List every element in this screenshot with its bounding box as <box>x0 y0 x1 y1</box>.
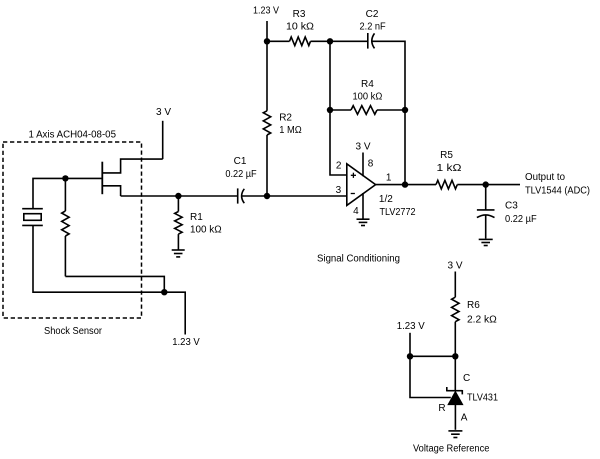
svg-text:0.22 µF: 0.22 µF <box>505 214 537 225</box>
node: R4 right dot <box>402 107 408 113</box>
ground (below C3) <box>479 239 493 245</box>
svg-text:C2: C2 <box>366 9 379 20</box>
svg-text:R4: R4 <box>361 79 374 90</box>
power: 3 V stem (transistor drain) <box>156 107 171 159</box>
label: 1.23 V (sensor bias) <box>172 337 200 348</box>
node: feedback node dot <box>327 38 333 44</box>
piezo element (shock sensor crystal) <box>22 209 43 226</box>
wire: 1.23 V stub down to junction <box>409 333 411 357</box>
wire: internal resistor bottom to 1.23V rail <box>65 276 164 292</box>
svg-text:C1: C1 <box>234 156 247 167</box>
svg-text:R2: R2 <box>279 113 292 124</box>
svg-text:C3: C3 <box>505 200 518 211</box>
label: C2 2.2 nF <box>360 9 386 32</box>
label: R2 1 MOhm <box>279 113 302 137</box>
op-amp U1 1/2 TLV2772 <box>347 164 376 206</box>
pin label R (reference) <box>438 403 445 414</box>
node: output junction dot <box>402 181 408 187</box>
label: Signal Conditioning <box>317 254 400 265</box>
svg-text:3 V: 3 V <box>156 107 171 118</box>
pin 2 label <box>336 161 342 172</box>
pin label A (anode) <box>461 413 468 424</box>
capacitor C1 <box>238 188 245 203</box>
svg-text:2: 2 <box>336 161 342 172</box>
svg-text:0.22 µF: 0.22 µF <box>225 169 256 180</box>
wire: pin 4 to ground <box>362 193 364 219</box>
pin 4 label <box>353 206 359 217</box>
node: 1.23V junction dot <box>161 289 167 295</box>
svg-text:R6: R6 <box>467 300 480 311</box>
label: R5 1 kOhm <box>437 150 463 174</box>
resistor R3 <box>267 37 368 46</box>
power: 1.23 V (top reference feed) <box>253 5 279 41</box>
label: C3 0.22 uF <box>505 200 537 225</box>
capacitor C3 <box>477 185 495 239</box>
resistor R6 <box>452 297 459 391</box>
svg-text:1.23 V: 1.23 V <box>397 321 425 332</box>
svg-text:1: 1 <box>386 173 392 184</box>
wire: piezo top to gate node <box>33 178 102 208</box>
svg-text:1 kΩ: 1 kΩ <box>437 163 463 174</box>
label: 1/2 TLV2772 <box>379 194 416 218</box>
resistor (sensor internal) <box>62 178 69 276</box>
ground (op-amp pin 4) <box>357 219 370 225</box>
svg-text:Voltage Reference: Voltage Reference <box>413 444 490 455</box>
svg-text:TLV1544 (ADC): TLV1544 (ADC) <box>525 186 590 197</box>
wire: junction to cathode column <box>410 355 455 357</box>
node: reference left dot <box>407 353 413 359</box>
ground (below R1) <box>172 250 185 257</box>
label: 1.23 V (reference output) <box>397 321 425 332</box>
node: gate junction dot <box>62 175 68 181</box>
pin label C (cathode) <box>463 373 470 384</box>
svg-text:TLV431: TLV431 <box>467 393 498 404</box>
label: TLV431 <box>467 393 498 404</box>
pin 3 label <box>336 185 342 196</box>
svg-text:2.2 nF: 2.2 nF <box>360 21 386 32</box>
resistor R2 <box>263 41 270 196</box>
label: Shock Sensor <box>44 326 103 337</box>
node: R2 junction dot <box>264 193 270 199</box>
svg-text:C: C <box>463 373 470 384</box>
wire: reference terminal loop <box>410 356 451 397</box>
svg-text:1 MΩ: 1 MΩ <box>279 125 302 136</box>
svg-text:1.23 V: 1.23 V <box>253 5 279 16</box>
svg-text:3 V: 3 V <box>447 261 462 272</box>
svg-text:100 kΩ: 100 kΩ <box>353 91 383 102</box>
svg-text:R: R <box>438 403 445 414</box>
svg-text:1/2: 1/2 <box>379 194 393 205</box>
wire: C2 right to output column <box>372 41 405 184</box>
svg-text:1.23 V: 1.23 V <box>172 337 200 348</box>
svg-text:2.2 kΩ: 2.2 kΩ <box>467 315 497 326</box>
svg-text:R3: R3 <box>293 9 306 20</box>
label: R4 100 kOhm <box>353 79 383 102</box>
svg-text:A: A <box>461 413 468 424</box>
svg-text:R5: R5 <box>440 150 453 161</box>
svg-text:10 kΩ: 10 kΩ <box>286 21 315 32</box>
wire: C1 to op-amp inverting input <box>242 195 347 197</box>
resistor R5 <box>436 180 520 189</box>
svg-text:Output to: Output to <box>525 172 565 183</box>
svg-text:1 Axis ACH04-08-05: 1 Axis ACH04-08-05 <box>29 130 117 141</box>
svg-text:3: 3 <box>336 185 342 196</box>
label: Output to TLV1544 (ADC) <box>525 172 590 197</box>
svg-text:TLV2772: TLV2772 <box>380 207 416 218</box>
label: C1 0.22 uF <box>225 156 256 180</box>
pin 1 label <box>386 173 392 184</box>
svg-text:8: 8 <box>368 158 374 169</box>
svg-text:3 V: 3 V <box>355 141 370 152</box>
label: R3 10 kOhm <box>286 9 315 32</box>
label: 1 Axis ACH04-08-05 <box>29 130 117 141</box>
node: R1 junction dot <box>175 193 181 199</box>
power: 3 V (op-amp supply pin 8) <box>355 141 370 176</box>
resistor R4 <box>330 106 405 115</box>
label: R6 2.2 kOhm <box>467 300 497 326</box>
node: C3 junction dot <box>483 181 489 187</box>
node: top-left junction dot <box>264 38 270 44</box>
resistor R1 <box>175 196 182 250</box>
svg-text:Shock Sensor: Shock Sensor <box>44 326 103 337</box>
node: R4 left dot <box>327 107 333 113</box>
node: reference right dot <box>452 353 458 359</box>
svg-text:100 kΩ: 100 kΩ <box>190 225 222 236</box>
svg-text:R1: R1 <box>190 212 203 223</box>
label: R1 100 kOhm <box>190 212 222 236</box>
shock sensor dashed enclosure <box>3 142 142 318</box>
wire: signal line from source to C1 <box>121 195 238 197</box>
wire: piezo bottom to 1.23V stub <box>33 225 185 334</box>
label: Voltage Reference <box>413 444 490 455</box>
wire: feedback node down to non-inverting input <box>330 41 347 175</box>
wire: op-amp output <box>376 184 436 186</box>
pin 8 label <box>368 158 374 169</box>
capacitor C2 <box>368 33 375 49</box>
power: 3 V (voltage reference feed) <box>447 261 462 298</box>
shunt reference U2 TLV431 <box>447 387 463 430</box>
svg-text:4: 4 <box>353 206 359 217</box>
svg-text:Signal Conditioning: Signal Conditioning <box>317 254 400 265</box>
ground (below TLV431) <box>448 431 462 438</box>
transistor Q1 (JFET in sensor) <box>102 159 162 196</box>
